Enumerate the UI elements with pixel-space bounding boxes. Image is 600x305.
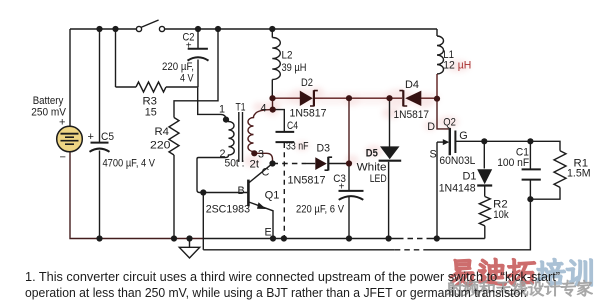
wire D2 cathode to D4 (red tinted)	[315, 97, 403, 99]
wire Q2 gate line to R1	[455, 141, 560, 150]
svg-text:4 V: 4 V	[180, 73, 194, 85]
wire C1 bottom lead	[529, 180, 531, 199]
wire L2 node to T1 pin4 node	[272, 98, 274, 109]
svg-text:4700 µF, 4 V: 4700 µF, 4 V	[103, 158, 156, 170]
wire D4 anode to L1 node (red tinted)	[421, 97, 437, 99]
svg-text:C4: C4	[287, 120, 298, 132]
svg-text:D3: D3	[317, 143, 331, 155]
wire C5 top lead	[99, 29, 101, 142]
svg-text:+: +	[88, 131, 94, 143]
svg-text:1N4148: 1N4148	[439, 183, 476, 195]
transistor Q2	[437, 99, 455, 239]
wire C3 bottom lead	[348, 197, 350, 239]
resistor R2	[479, 197, 490, 226]
svg-text:10k: 10k	[493, 209, 509, 221]
wire D1 top lead	[483, 141, 485, 168]
wire L2 bottom lead	[271, 80, 273, 99]
resistor R1	[554, 151, 566, 188]
svg-text:Q1: Q1	[265, 190, 280, 202]
svg-text:D2: D2	[301, 77, 313, 89]
svg-text:39 µH: 39 µH	[282, 62, 307, 74]
svg-text:D: D	[427, 121, 435, 133]
wire collector node dashed to D3	[273, 163, 307, 165]
wire output rail L2 to D2 (red tinted)	[273, 97, 301, 99]
wire C1 top lead	[529, 141, 531, 169]
wire T1 pin 2 to base node	[197, 158, 226, 193]
svg-text:operation at less than 250 mV,: operation at less than 250 mV, while usi…	[25, 285, 527, 300]
wire battery positive riser	[69, 29, 71, 127]
wire C2 top lead	[197, 29, 199, 48]
watermark gray characters	[446, 280, 463, 296]
wire D3 cathode to output node	[329, 163, 350, 165]
wire T1 pin 3 to collector node	[254, 153, 272, 163]
LED D5 white	[379, 146, 402, 160]
wire C2 bottom lead	[197, 60, 199, 88]
wire top bus right segment	[165, 28, 437, 30]
svg-text:33 nF: 33 nF	[286, 141, 309, 153]
svg-text:15: 15	[145, 107, 157, 119]
svg-text:220 µF,: 220 µF,	[162, 61, 194, 73]
wire T1 pin 4 / C4 top lead	[273, 110, 285, 131]
svg-text:T1: T1	[236, 102, 246, 114]
svg-text:60N03L: 60N03L	[439, 155, 475, 167]
svg-text:D5: D5	[366, 148, 378, 160]
svg-text:−: −	[60, 152, 66, 164]
wire R4 bottom lead	[173, 155, 175, 239]
wire C4 dashed lead to ground	[283, 143, 285, 239]
svg-text:100 nF: 100 nF	[497, 157, 529, 169]
wire top bus left segment	[70, 28, 136, 30]
diode D4 1N5817	[399, 90, 421, 106]
svg-text:4: 4	[261, 103, 267, 115]
svg-text:C5: C5	[101, 131, 114, 143]
svg-text:R4: R4	[155, 126, 170, 138]
svg-text:1N5817: 1N5817	[290, 107, 327, 119]
resistor R4	[169, 118, 179, 156]
wire R1 bottom lead	[530, 187, 560, 199]
wire C3 top lead	[348, 164, 350, 191]
diode D3 1N5817	[315, 157, 332, 171]
svg-text:S: S	[430, 148, 437, 160]
switch S1	[136, 20, 164, 32]
wire battery negative to bottom bus	[69, 152, 71, 238]
wire D1 cathode to R2	[484, 187, 486, 197]
svg-text:2SC1983: 2SC1983	[206, 203, 250, 215]
svg-text:12 µH: 12 µH	[443, 60, 471, 72]
capacitor C1 plates	[522, 169, 541, 179]
svg-text:G: G	[459, 130, 467, 142]
wire Q1 base	[203, 192, 247, 194]
svg-text:L2: L2	[282, 49, 293, 61]
wire base node down to feedback wire	[202, 193, 204, 250]
svg-text:+: +	[339, 181, 345, 192]
inductor L1	[437, 36, 444, 74]
wire bottom bus right section	[431, 238, 485, 240]
svg-text:1N5817: 1N5817	[394, 109, 430, 121]
wire top bus to R4	[174, 29, 218, 118]
capacitor C3 plates	[339, 191, 364, 200]
svg-text:220 µF, 6 V: 220 µF, 6 V	[296, 204, 345, 216]
wire feedback bottom right segment	[427, 199, 530, 250]
diode D2 1N5817	[300, 90, 318, 106]
svg-text:2t: 2t	[250, 159, 260, 171]
wire R2 bottom lead	[484, 226, 486, 239]
wire D5 bottom lead	[388, 162, 390, 239]
svg-text:1.5M: 1.5M	[567, 168, 591, 180]
svg-text:C: C	[262, 167, 270, 179]
svg-text:D4: D4	[405, 79, 419, 91]
wire feedback bottom dashed section	[395, 249, 427, 251]
wire feedback bottom left segment	[203, 249, 394, 251]
transformer T1 primary winding	[226, 120, 235, 158]
watermark red characters	[450, 260, 474, 286]
svg-text:+: +	[186, 41, 192, 52]
transformer T1 core	[239, 112, 243, 162]
svg-text:LED: LED	[370, 173, 387, 185]
capacitor C4 plates	[276, 132, 295, 142]
transistor Q1	[248, 164, 273, 238]
wire C5 bottom lead	[99, 151, 101, 239]
battery B1 250 mV	[57, 126, 83, 152]
wire L1 bottom lead (red tinted)	[436, 74, 438, 99]
svg-text:B: B	[238, 185, 245, 197]
wire D5 top lead	[389, 98, 391, 147]
ground symbol	[179, 239, 199, 259]
wire switch feed vertical	[115, 29, 117, 87]
wire bottom ground bus middle part	[203, 238, 398, 240]
svg-text:E: E	[265, 227, 272, 239]
svg-text:1N5817: 1N5817	[288, 175, 326, 187]
svg-text:Battery: Battery	[33, 95, 64, 107]
svg-text:+: +	[59, 117, 65, 129]
resistor R3	[116, 82, 198, 92]
diode D1 1N4148	[477, 169, 492, 185]
svg-text:Q2: Q2	[443, 116, 456, 128]
transformer T1 secondary winding	[248, 110, 273, 154]
svg-text:1: 1	[219, 104, 225, 116]
wire bottom ground bus left part	[69, 238, 203, 240]
wire output node vertical	[348, 98, 350, 163]
faint watermark smudges	[244, 60, 470, 167]
svg-text:50t :: 50t :	[225, 158, 245, 170]
wire L1 top lead	[436, 29, 438, 36]
wire D3 anode stub	[306, 163, 315, 165]
inductor L2	[272, 38, 280, 80]
capacitor C2 plates	[188, 49, 209, 61]
svg-text:D1: D1	[463, 171, 477, 183]
svg-text:1. This converter circuit uses: 1. This converter circuit uses a third w…	[25, 269, 560, 284]
wire bottom bus dashed section	[398, 238, 431, 240]
svg-text:220: 220	[150, 140, 171, 152]
svg-text:White: White	[357, 161, 387, 173]
capacitor C5 plates	[90, 143, 110, 152]
wire L2 top lead	[271, 29, 273, 38]
wire C2 node to T1 pin 1	[198, 87, 226, 119]
